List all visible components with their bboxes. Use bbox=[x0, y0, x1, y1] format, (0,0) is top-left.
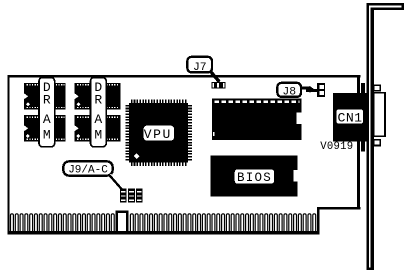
memory chip U (bank1 upper) bbox=[24, 83, 66, 110]
jumper J7 bbox=[211, 82, 225, 89]
svg-text:J9/A-C: J9/A-C bbox=[68, 165, 108, 177]
DB connector body bbox=[374, 93, 385, 136]
connector CN1 body bbox=[333, 93, 368, 142]
svg-text:V0919: V0919 bbox=[320, 141, 353, 153]
svg-text:M: M bbox=[43, 128, 51, 143]
callout J8 bbox=[277, 83, 317, 99]
svg-text:C: C bbox=[338, 110, 346, 125]
BIOS chip bbox=[211, 155, 299, 196]
DRAM label bank2 bbox=[91, 78, 107, 147]
svg-text:R: R bbox=[43, 93, 51, 108]
connector key tab bbox=[117, 212, 127, 233]
svg-text:1: 1 bbox=[354, 110, 362, 125]
callout J9/A-C bbox=[63, 161, 123, 188]
memory chip U (bank2 upper) bbox=[74, 83, 120, 110]
svg-text:R: R bbox=[94, 93, 102, 108]
svg-text:I: I bbox=[246, 171, 254, 185]
edge connector fingers section 1 bbox=[11, 214, 115, 233]
svg-text:A: A bbox=[43, 112, 51, 127]
memory chip U (bank1 lower) bbox=[24, 115, 66, 141]
svg-text:V: V bbox=[144, 127, 152, 142]
svg-text:U: U bbox=[162, 127, 170, 142]
DB connector top tab bbox=[374, 85, 380, 91]
svg-text:O: O bbox=[255, 171, 263, 185]
edge connector fingers section 2 bbox=[130, 214, 315, 233]
jumper block J9/A-C bbox=[120, 188, 143, 202]
connector CN1 mount bar bbox=[361, 83, 365, 152]
callout J7 bbox=[187, 57, 219, 82]
jumper J8 bbox=[317, 83, 325, 97]
memory chip U (bank2 lower) bbox=[74, 115, 120, 141]
card PCB outline bbox=[8, 75, 361, 234]
DB connector bottom tab bbox=[374, 140, 380, 146]
svg-text:S: S bbox=[263, 171, 271, 185]
svg-text:N: N bbox=[346, 110, 354, 125]
svg-text:P: P bbox=[153, 127, 161, 142]
svg-text:M: M bbox=[94, 128, 102, 143]
VPU chip U (QFP) bbox=[125, 99, 192, 166]
svg-text:J8: J8 bbox=[282, 87, 296, 99]
DRAM label bank1 bbox=[39, 78, 55, 147]
chip U (wide, top right) bbox=[212, 99, 302, 141]
svg-text:B: B bbox=[237, 171, 245, 185]
svg-text:A: A bbox=[94, 112, 102, 127]
card bottom edge bbox=[8, 231, 320, 234]
bracket bbox=[367, 3, 405, 270]
svg-text:J7: J7 bbox=[193, 62, 207, 74]
